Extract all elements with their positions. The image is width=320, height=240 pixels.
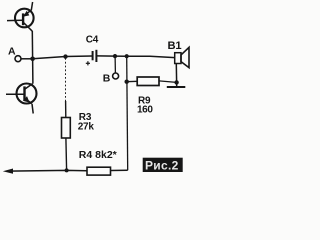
resistor R4	[87, 167, 111, 175]
wire R3 bottom	[65, 138, 68, 170]
speaker B1 body	[175, 53, 181, 64]
node dot speaker/R9	[174, 80, 178, 84]
node dot long branch	[125, 54, 129, 58]
transistor VT-bottom (NPN)	[6, 84, 37, 114]
svg-text:27k: 27k	[78, 122, 95, 133]
plus sign	[86, 61, 90, 65]
wire A to junction	[21, 58, 32, 60]
node dot at A wire junction	[30, 57, 35, 62]
wire collector bus	[31, 31, 34, 84]
svg-text:B1: B1	[168, 40, 182, 52]
svg-text:A: A	[8, 46, 16, 58]
wire R4 to corner	[111, 169, 128, 171]
wire speaker to ground	[175, 64, 177, 87]
svg-text:C4: C4	[86, 34, 99, 45]
wire main rail	[33, 56, 92, 59]
arrow left	[3, 169, 13, 174]
node B terminal	[113, 73, 119, 79]
wire bottom rail	[8, 169, 87, 172]
svg-text:B: B	[103, 72, 111, 84]
svg-text:R4 8k2*: R4 8k2*	[79, 149, 118, 161]
transistor VT-top (PNP)	[7, 2, 34, 31]
node dot bottom junction	[65, 168, 69, 172]
wire to B terminal	[114, 56, 116, 73]
svg-text:160: 160	[137, 105, 153, 116]
svg-text:Рис.2: Рис.2	[145, 158, 179, 172]
resistor R9	[137, 77, 159, 86]
node dot R3 branch	[63, 54, 67, 58]
figure caption box	[143, 158, 183, 172]
node A terminal	[15, 56, 21, 62]
resistor R3	[62, 118, 71, 139]
wire to R3 top	[65, 101, 67, 118]
node dot R9 left	[125, 80, 129, 84]
wire long vertical	[127, 56, 128, 170]
speaker B1 horn	[181, 47, 189, 67]
wire R9 right	[159, 81, 177, 83]
ground bar	[167, 86, 186, 88]
node dot B branch	[113, 54, 117, 58]
capacitor C4 plates	[92, 51, 94, 60]
wire rail right of C4	[97, 56, 175, 58]
wire dashed to R3	[65, 58, 67, 101]
wire to R9	[127, 80, 138, 82]
